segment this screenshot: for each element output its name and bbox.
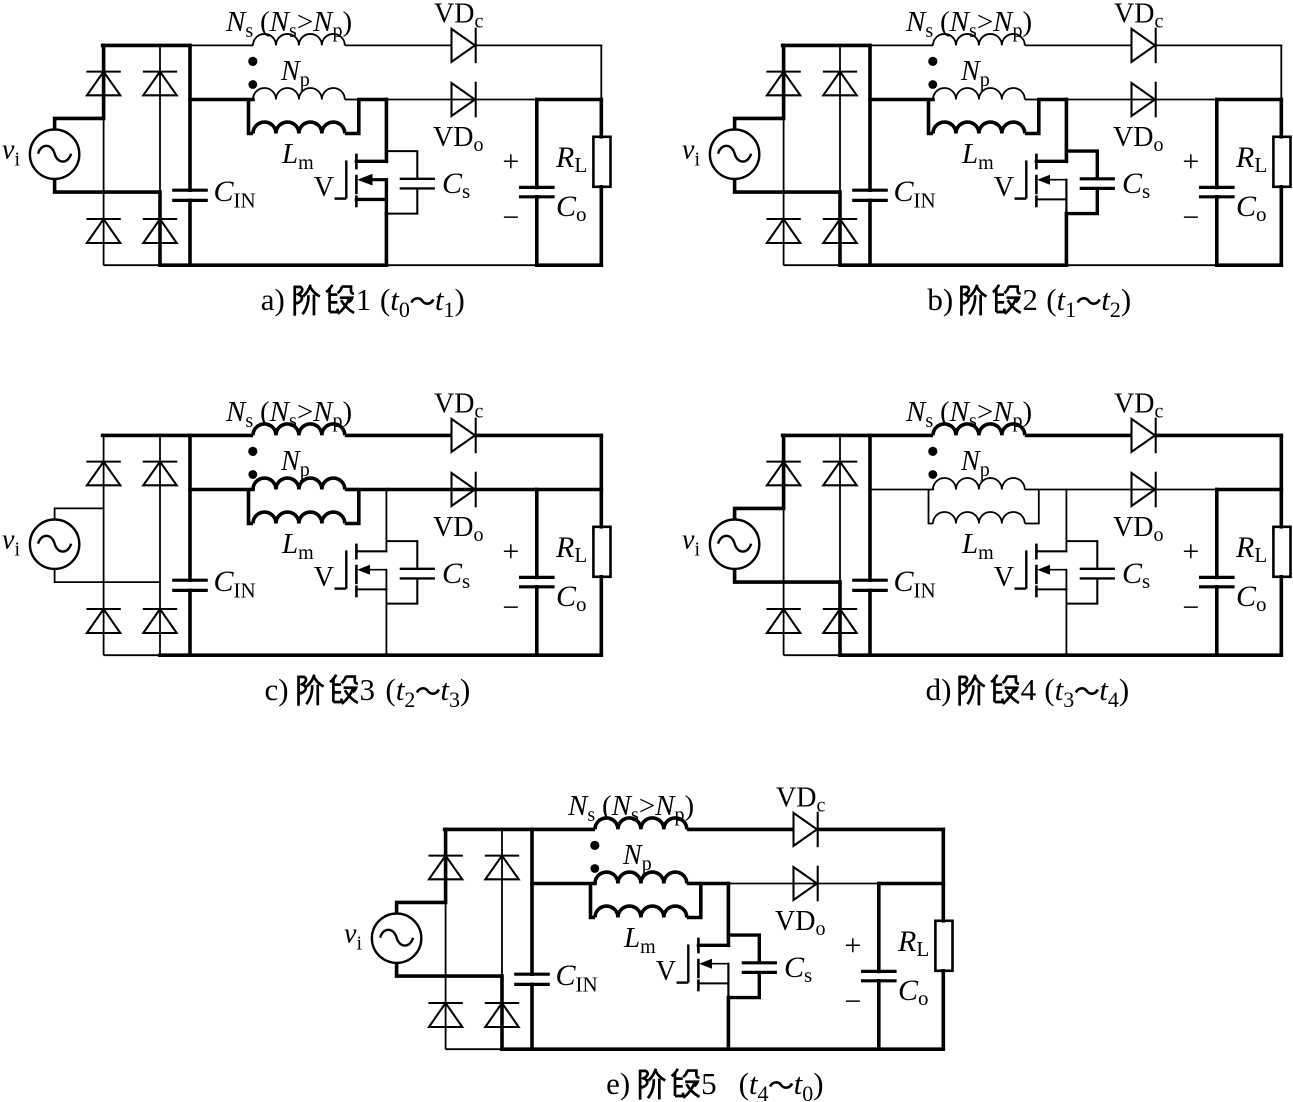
stage c: diode VD_c xyxy=(452,418,476,454)
stage c: wire bridge right branch upper xyxy=(159,435,161,582)
stage a: wire top rail C_IN to N_s xyxy=(190,44,253,46)
stage a: transistor V body arrow xyxy=(357,174,386,186)
stage b: wire C_s bottom branch xyxy=(1066,188,1097,213)
stage d: wire bridge right branch lower xyxy=(838,582,842,655)
stage a: label C_s xyxy=(442,167,470,203)
stage b: wire bottom rail C_IN to MOSFET xyxy=(870,263,1066,267)
stage d: AC source v_i xyxy=(710,520,759,569)
stage b: label VD_o xyxy=(1113,122,1163,156)
stage c: bridge diode top-left xyxy=(86,462,120,486)
stage b: wire MOSFET source riser lower xyxy=(1065,214,1069,266)
stage b: wire top rail bridge to C_IN xyxy=(783,44,870,48)
stage c: wire top rail VD_c to right corner xyxy=(476,434,602,438)
stage c: wire top rail N_s to VD_c xyxy=(345,434,452,438)
stage c: wire top rail bridge to C_IN xyxy=(103,434,190,438)
stage a: wire right riser VD_c to VD_o rail xyxy=(600,45,602,99)
stage a: wire bottom rail C_o to R_L xyxy=(537,263,602,267)
stage d: wire mid rail MOSFET riser to C_o xyxy=(1066,489,1216,491)
stage d: wire bridge left branch upper xyxy=(782,435,786,508)
stage d: wire v_i top lead xyxy=(735,508,784,519)
stage c: wire L_m left riser xyxy=(249,490,254,524)
stage d: wire v_i bottom lead xyxy=(735,569,840,582)
stage a: polarity dot N_p xyxy=(248,80,257,89)
stage b: wire bridge right branch lower xyxy=(838,192,842,265)
stage e: capacitor C_o xyxy=(861,884,897,1050)
stage b: label C_s xyxy=(1122,167,1150,203)
stage d: polarity dot N_p xyxy=(928,470,937,479)
stage a: wire MOSFET source riser upper xyxy=(385,180,388,214)
svg-text:V: V xyxy=(314,172,334,203)
stage d: wire bottom rail left xyxy=(784,654,840,656)
stage a: caption xyxy=(261,282,465,322)
stage b: label plus xyxy=(1182,145,1199,178)
stage b: wire bottom rail bridge to C_IN xyxy=(840,263,870,267)
stage c: wire bridge left branch upper xyxy=(103,435,105,508)
stage a: wire mid rail N_p to L_m riser xyxy=(345,99,359,101)
stage e: label L_m xyxy=(623,922,656,958)
stage d: wire MOSFET source riser lower xyxy=(1065,604,1067,656)
svg-text:V: V xyxy=(994,172,1014,203)
stage a: label N_s xyxy=(225,6,352,42)
stage e: wire bottom rail C_IN to MOSFET xyxy=(532,1047,728,1051)
stage c: wire C_s bottom branch xyxy=(386,578,417,603)
stage b: wire bottom rail C_o to R_L xyxy=(1217,263,1282,267)
stage b: label C_o xyxy=(1236,190,1267,226)
stage e: transistor V drain bar xyxy=(698,944,728,947)
stage b: transistor V body arrow xyxy=(1037,175,1066,185)
stage d: wire bridge right branch upper xyxy=(839,435,841,582)
stage c: wire mid rail C_IN to N_p xyxy=(190,488,253,492)
stage b: wire bridge left branch lower xyxy=(783,118,785,265)
stage c: capacitor C_s xyxy=(400,569,435,579)
stage a: bridge diode top-left xyxy=(86,72,120,96)
svg-text:+: + xyxy=(502,535,519,568)
stage d: wire C_s top branch xyxy=(1066,541,1097,569)
stage d: wire mid rail C_o to R_L xyxy=(1217,488,1282,492)
stage b: bridge diode bottom-left xyxy=(766,219,800,243)
stage b: bridge diode top-left xyxy=(766,72,800,96)
stage b: wire bridge right branch upper xyxy=(839,45,841,192)
stage e: AC source v_i xyxy=(372,914,421,963)
stage b: wire bridge left branch upper xyxy=(782,45,786,118)
stage a: wire bottom rail bridge to C_IN xyxy=(160,263,190,267)
stage e: diode VD_c xyxy=(794,812,818,848)
stage d: capacitor C_s xyxy=(1080,569,1115,579)
stage a: capacitor C_s xyxy=(400,179,435,189)
stage e: winding N_s xyxy=(595,818,687,829)
stage e: wire top rail bridge to C_IN xyxy=(445,828,532,832)
svg-text:2: 2 xyxy=(1022,282,1038,317)
stage c: winding N_s xyxy=(253,424,345,435)
stage e: wire bottom rail MOSFET to C_o xyxy=(728,1047,878,1051)
svg-text:−: − xyxy=(502,591,519,624)
stage b: wire L_m left riser xyxy=(929,100,934,134)
stage a: wire mid rail L_m riser to MOSFET riser xyxy=(359,98,387,102)
stage b: diode VD_c xyxy=(1132,28,1156,64)
stage b: resistor R_L xyxy=(1273,100,1290,266)
stage c: wire mid rail C_o to R_L xyxy=(537,488,602,492)
stage b: wire MOSFET source riser upper xyxy=(1065,180,1067,214)
stage d: bridge diode top-left xyxy=(766,462,800,486)
stage b: capacitor C_o xyxy=(1199,100,1235,266)
stage b: label minus xyxy=(1182,201,1199,234)
stage a: label V xyxy=(314,172,334,203)
stage d: diode VD_c xyxy=(1132,418,1156,454)
stage c: transistor V channel xyxy=(355,544,358,598)
stage e: polarity dot N_p xyxy=(590,864,599,873)
stage c: label L_m xyxy=(281,528,314,564)
stage a: wire mid rail C_IN to N_p xyxy=(190,98,253,102)
stage d: wire bottom rail MOSFET to C_o xyxy=(1066,653,1216,657)
stage d: polarity dot N_s xyxy=(928,447,937,456)
stage c: bridge diode bottom-right xyxy=(143,609,177,633)
stage c: wire bridge right branch lower xyxy=(159,582,161,655)
stage a: wire C_s top branch xyxy=(386,151,417,179)
stage b: polarity dot N_p xyxy=(928,80,937,89)
stage c: label plus xyxy=(502,535,519,568)
stage a: diode VD_o xyxy=(452,82,476,118)
stage c: wire bottom rail C_IN to MOSFET xyxy=(190,653,386,657)
stage c: wire mid rail N_p to L_m riser xyxy=(345,488,359,492)
stage b: label v_i xyxy=(682,135,700,171)
stage c: transistor V drain bar xyxy=(356,550,386,552)
stage c: wire MOSFET source riser upper xyxy=(385,570,387,604)
stage a: wire top rail VD_c to right corner xyxy=(476,44,602,46)
stage e: wire bottom rail left xyxy=(446,1048,502,1050)
stage c: wire right riser VD_c to VD_o rail xyxy=(599,435,603,489)
stage c: wire bottom rail bridge to C_IN xyxy=(160,653,190,657)
stage d: transistor V drain bar xyxy=(1036,550,1066,552)
stage b: capacitor C_IN xyxy=(852,45,888,265)
stage b: winding N_p xyxy=(933,88,1025,99)
stage a: label plus xyxy=(502,145,519,178)
stage b: bridge diode bottom-right xyxy=(823,219,857,243)
stage c: label C_s xyxy=(442,557,470,593)
stage b: wire top rail VD_c to right corner xyxy=(1156,44,1282,46)
stage c: label C_o xyxy=(556,580,587,616)
stage a: wire v_i bottom lead xyxy=(55,179,160,192)
stage a: capacitor C_o xyxy=(519,100,555,266)
stage c: wire top rail C_IN to N_s xyxy=(190,434,253,438)
stage d: wire top rail bridge to C_IN xyxy=(783,434,870,438)
stage d: label v_i xyxy=(682,525,700,561)
stage a: label v_i xyxy=(2,135,20,171)
stage b: capacitor C_s xyxy=(1080,179,1115,189)
stage e: label VD_o xyxy=(775,906,825,940)
stage d: wire bridge left branch lower xyxy=(783,508,785,655)
stage a: label L_m xyxy=(281,138,314,174)
stage e: label plus xyxy=(844,929,861,962)
stage c: caption xyxy=(265,672,471,712)
stage b: winding N_s xyxy=(933,34,1025,45)
stage c: polarity dot N_p xyxy=(248,470,257,479)
stage d: wire mid rail N_p to L_m riser xyxy=(1025,489,1039,491)
stage d: wire mid rail C_IN to N_p xyxy=(870,489,933,491)
stage c: AC source v_i xyxy=(30,520,79,569)
stage a: wire bridge right branch upper xyxy=(159,45,161,192)
stage d: transistor V gate xyxy=(1015,550,1027,588)
stage e: bridge diode top-left xyxy=(428,856,462,880)
svg-text:−: − xyxy=(1182,591,1199,624)
svg-text:+: + xyxy=(1182,145,1199,178)
stage a: label C_IN xyxy=(214,175,256,213)
svg-text:3: 3 xyxy=(360,672,376,707)
stage c: bridge diode top-right xyxy=(143,462,177,486)
stage a: wire mid rail C_o to R_L xyxy=(537,98,602,102)
stage d: wire bottom rail bridge to C_IN xyxy=(840,653,870,657)
stage a: wire top rail bridge to C_IN xyxy=(103,44,190,48)
stage e: wire C_s top branch xyxy=(728,935,759,963)
stage a: transistor V channel xyxy=(355,154,358,208)
stage e: wire bridge right branch lower xyxy=(500,976,504,1049)
stage c: capacitor C_IN xyxy=(172,435,208,655)
stage a: transistor V gate xyxy=(335,160,347,198)
stage c: bridge diode bottom-left xyxy=(86,609,120,633)
stage c: label N_s xyxy=(225,396,352,432)
stage c: label VD_o xyxy=(433,512,483,546)
stage e: label N_s xyxy=(567,790,694,826)
svg-text:−: − xyxy=(1182,201,1199,234)
stage a: diode VD_c xyxy=(452,28,476,64)
stage b: label N_s xyxy=(905,6,1032,42)
stage a: wire top rail N_s to VD_c xyxy=(345,44,452,46)
stage a: wire bridge left branch upper xyxy=(102,45,106,118)
stage e: bridge diode bottom-right xyxy=(485,1003,519,1027)
stage c: label minus xyxy=(502,591,519,624)
stage d: label N_s xyxy=(905,396,1032,432)
stage e: wire mid rail L_m riser to MOSFET riser xyxy=(701,882,729,886)
stage b: transistor V channel xyxy=(1035,154,1038,208)
stage c: resistor R_L xyxy=(593,490,610,656)
stage b: label VD_c xyxy=(1114,0,1163,33)
stage d: label plus xyxy=(1182,535,1199,568)
stage e: wire bridge left branch lower xyxy=(445,902,447,1049)
stage a: AC source v_i xyxy=(30,130,79,179)
stage c: label V xyxy=(314,562,334,593)
stage a: label minus xyxy=(502,201,519,234)
stage d: wire C_s bottom branch xyxy=(1066,578,1097,603)
stage b: label R_L xyxy=(1235,141,1267,177)
stage a: bridge diode top-right xyxy=(143,72,177,96)
stage a: label N_p xyxy=(280,56,310,91)
stage e: wire bottom rail bridge to C_IN xyxy=(502,1047,532,1051)
stage b: wire bottom rail left xyxy=(784,264,840,266)
stage e: wire v_i bottom lead xyxy=(397,963,502,976)
stage e: diode VD_o xyxy=(794,866,818,902)
stage c: wire bottom rail left xyxy=(104,654,160,656)
stage b: wire v_i top lead xyxy=(735,118,784,129)
stage b: label C_IN xyxy=(894,175,936,213)
stage e: wire mid rail C_o to R_L xyxy=(879,882,944,886)
stage d: wire top rail C_IN to N_s xyxy=(870,434,933,438)
stage c: transistor V body arrow xyxy=(357,565,386,575)
stage e: bridge diode bottom-left xyxy=(428,1003,462,1027)
stage b: caption xyxy=(927,282,1131,322)
stage d: resistor R_L xyxy=(1273,490,1290,656)
stage c: wire bottom rail MOSFET to C_o xyxy=(386,653,536,657)
stage c: wire C_s top branch xyxy=(386,541,417,569)
stage a: capacitor C_IN xyxy=(172,45,208,265)
stage e: wire top rail C_IN to N_s xyxy=(532,828,595,832)
stage c: label R_L xyxy=(555,531,587,567)
stage b: wire MOSFET drain riser xyxy=(1065,100,1069,162)
stage e: transistor V channel xyxy=(697,938,700,992)
stage c: winding N_p xyxy=(253,478,345,489)
stage b: wire mid rail L_m riser to MOSFET riser xyxy=(1039,98,1067,102)
stage a: wire MOSFET source riser lower xyxy=(385,214,389,266)
stage b: wire C_s top branch xyxy=(1066,151,1097,179)
stage a: wire L_m left riser xyxy=(249,100,254,134)
stage a: wire bottom rail MOSFET to C_o xyxy=(386,264,536,266)
stage b: wire mid rail N_p to L_m riser xyxy=(1025,99,1039,101)
stage a: transistor V source bar xyxy=(356,198,386,201)
stage d: capacitor C_o xyxy=(1199,490,1235,656)
stage a: wire C_s bottom branch xyxy=(386,188,417,213)
stage d: bridge diode bottom-left xyxy=(766,609,800,633)
stage e: wire right riser VD_c to VD_o rail xyxy=(941,829,945,883)
stage a: wire bridge left branch lower xyxy=(103,118,105,265)
stage b: AC source v_i xyxy=(710,130,759,179)
stage b: transistor V gate xyxy=(1015,160,1027,198)
stage e: bridge diode top-right xyxy=(485,856,519,880)
stage e: winding N_p xyxy=(595,872,687,883)
stage b: wire top rail N_s to VD_c xyxy=(1025,44,1132,46)
svg-text:b): b) xyxy=(927,282,953,317)
stage b: wire mid rail MOSFET riser to C_o xyxy=(1066,99,1216,101)
stage e: label V xyxy=(656,956,676,987)
stage c: wire v_i bottom lead xyxy=(55,569,160,582)
stage d: label C_IN xyxy=(894,565,936,603)
stage c: label C_IN xyxy=(214,565,256,603)
stage d: label C_o xyxy=(1236,580,1267,616)
svg-text:5: 5 xyxy=(701,1066,717,1101)
svg-text:e): e) xyxy=(606,1066,630,1101)
stage d: label VD_o xyxy=(1113,512,1163,546)
stage a: bridge diode bottom-right xyxy=(143,219,177,243)
svg-text:a): a) xyxy=(261,282,285,317)
stage c: wire L_m right riser xyxy=(345,490,359,524)
stage e: label minus xyxy=(844,985,861,1018)
stage a: wire mid rail MOSFET riser to C_o xyxy=(386,99,536,101)
stage b: wire bottom rail MOSFET to C_o xyxy=(1066,264,1216,266)
stage b: polarity dot N_s xyxy=(928,57,937,66)
stage e: wire mid rail MOSFET riser to C_o xyxy=(728,883,878,885)
stage d: label R_L xyxy=(1235,531,1267,567)
stage d: wire MOSFET drain riser xyxy=(1065,490,1067,552)
stage e: inductor L_m xyxy=(595,906,687,917)
stage c: polarity dot N_s xyxy=(248,447,257,456)
stage b: wire top rail C_IN to N_s xyxy=(870,44,933,46)
svg-text:V: V xyxy=(656,956,676,987)
stage c: label N_p xyxy=(280,446,310,481)
stage a: label C_o xyxy=(556,190,587,226)
stage b: diode VD_o xyxy=(1132,82,1156,118)
stage d: wire bottom rail C_o to R_L xyxy=(1217,653,1282,657)
stage a: winding N_s xyxy=(253,34,345,45)
svg-text:−: − xyxy=(502,201,519,234)
stage c: label v_i xyxy=(2,525,20,561)
stage b: wire v_i bottom lead xyxy=(735,179,840,192)
stage d: wire right riser VD_c to VD_o rail xyxy=(1280,435,1284,489)
stage b: wire mid rail C_o to R_L xyxy=(1217,98,1282,102)
stage d: wire top rail VD_c to right corner xyxy=(1156,434,1282,438)
stage b: wire right riser VD_c to VD_o rail xyxy=(1280,45,1282,99)
stage d: wire top rail N_s to VD_c xyxy=(1025,434,1132,438)
stage d: wire MOSFET source riser upper xyxy=(1065,570,1067,604)
stage d: bridge diode bottom-right xyxy=(823,609,857,633)
stage e: capacitor C_s xyxy=(742,963,777,973)
stage a: resistor R_L xyxy=(593,100,610,266)
stage e: wire bottom rail C_o to R_L xyxy=(879,1047,944,1051)
stage b: label N_p xyxy=(960,56,990,91)
stage b: bridge diode top-right xyxy=(823,72,857,96)
stage d: wire L_m left riser xyxy=(929,490,934,524)
svg-text:4: 4 xyxy=(1021,672,1037,707)
stage c: wire MOSFET source riser lower xyxy=(385,604,387,656)
stage b: label V xyxy=(994,172,1014,203)
stage d: wire mid rail L_m riser to MOSFET riser xyxy=(1039,489,1067,491)
stage e: label VD_c xyxy=(776,783,825,817)
stage d: label L_m xyxy=(961,528,994,564)
svg-text:V: V xyxy=(994,562,1014,593)
stage d: transistor V channel xyxy=(1035,544,1038,598)
stage e: transistor V source bar xyxy=(698,982,728,984)
stage e: label R_L xyxy=(897,925,929,961)
stage c: wire bridge left branch lower xyxy=(103,508,105,655)
stage e: wire L_m right riser xyxy=(687,884,701,918)
stage d: winding N_p xyxy=(933,478,1025,489)
stage c: capacitor C_o xyxy=(519,490,555,656)
svg-text:d): d) xyxy=(926,672,952,707)
stage d: winding N_s xyxy=(933,424,1025,435)
stage e: wire bridge right branch upper xyxy=(501,829,503,976)
stage c: transistor V gate xyxy=(335,550,347,588)
stage a: wire bridge right branch lower xyxy=(158,192,162,265)
stage e: label C_IN xyxy=(556,959,598,997)
stage c: diode VD_o xyxy=(452,472,476,508)
stage d: diode VD_o xyxy=(1132,472,1156,508)
stage d: label minus xyxy=(1182,591,1199,624)
stage d: capacitor C_IN xyxy=(852,435,888,655)
stage a: inductor L_m xyxy=(253,122,345,133)
stage e: wire L_m left riser xyxy=(591,884,596,918)
stage e: polarity dot N_s xyxy=(590,841,599,850)
stage c: wire MOSFET drain riser xyxy=(385,490,387,552)
stage c: wire mid rail MOSFET riser to C_o xyxy=(386,488,536,492)
stage e: capacitor C_IN xyxy=(514,829,550,1049)
stage e: wire MOSFET source riser lower xyxy=(727,998,731,1050)
stage e: wire MOSFET drain riser xyxy=(727,884,731,946)
stage b: label L_m xyxy=(961,138,994,174)
stage d: label V xyxy=(994,562,1014,593)
stage e: transistor V gate xyxy=(677,944,689,982)
stage e: wire C_s bottom branch xyxy=(728,972,759,997)
stage d: wire L_m right riser xyxy=(1025,490,1039,524)
stage e: wire top rail VD_c to right corner xyxy=(818,828,944,832)
stage a: winding N_p xyxy=(253,88,345,99)
stage a: wire MOSFET drain riser xyxy=(385,100,389,162)
svg-text:+: + xyxy=(844,929,861,962)
stage d: transistor V source bar xyxy=(1036,588,1066,590)
stage a: label VD_o xyxy=(433,122,483,156)
stage a: wire L_m right riser xyxy=(345,100,359,134)
stage e: wire bridge left branch upper xyxy=(444,829,448,902)
stage b: wire L_m right riser xyxy=(1025,100,1039,134)
stage b: inductor L_m xyxy=(933,122,1025,133)
stage e: caption xyxy=(606,1066,823,1102)
svg-text:c): c) xyxy=(265,672,289,707)
stage e: label N_p xyxy=(622,840,652,875)
